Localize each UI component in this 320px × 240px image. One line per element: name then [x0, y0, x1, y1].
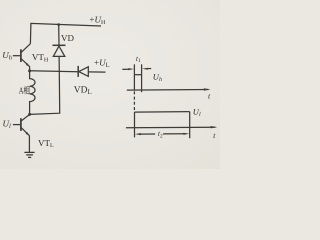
wire node A to VD_L cathode	[30, 70, 78, 73]
waveform: Ul pulse	[135, 112, 190, 139]
node B (winding bottom / VT_L collector)	[28, 113, 31, 116]
svg-text:VD: VD	[61, 33, 74, 43]
wire VD anode down to node B	[30, 71, 60, 114]
waveform: Uh pulse	[134, 64, 141, 92]
transistor VT_L	[13, 115, 30, 153]
diode VD_L (from +UL)	[78, 66, 105, 77]
svg-text:VDL: VDL	[74, 85, 92, 96]
svg-text:A相: A相	[19, 86, 30, 96]
waveform: Uh time axis	[127, 88, 211, 90]
node A (winding top / VT_H emitter)	[28, 69, 31, 72]
ground	[24, 152, 34, 157]
dashed alignment line	[133, 91, 135, 111]
dimension t2 arrows	[135, 133, 190, 136]
transistor VT_H	[13, 44, 31, 71]
waveform: Ul time axis	[126, 126, 217, 128]
wire +UH supply rail	[30, 23, 101, 43]
dimension t1 arrows	[122, 68, 151, 71]
node junction rail/VD	[57, 23, 60, 26]
inductor L: A-phase winding	[30, 71, 35, 115]
diode VD (freewheel to +UH)	[53, 25, 66, 72]
